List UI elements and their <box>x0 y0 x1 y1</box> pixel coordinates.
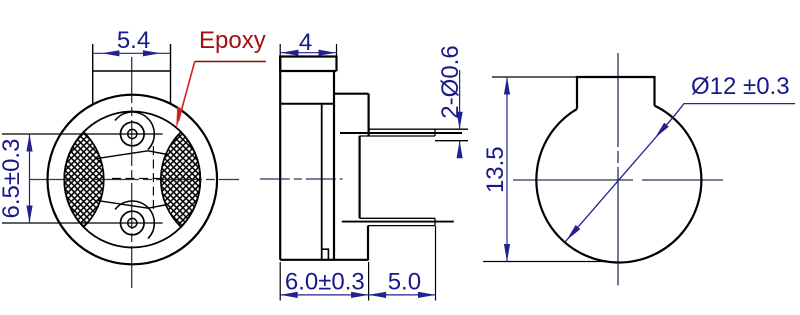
extension line mid bottom <box>368 262 370 301</box>
arrow 4 right <box>319 50 337 56</box>
vertical centerline right view <box>617 53 619 286</box>
left epoxy lens (hatched) <box>64 132 104 227</box>
arrow 6.0 right <box>351 292 369 298</box>
svg-text:Ø12 ±0.3: Ø12 ±0.3 <box>691 73 790 100</box>
base edge between pins <box>359 136 361 219</box>
internal seam line <box>321 104 323 260</box>
svg-text:13.5: 13.5 <box>482 146 509 193</box>
arrow 5.0 left <box>369 292 387 298</box>
arrow 4 left <box>281 50 299 56</box>
top pin upper line <box>369 128 468 130</box>
svg-text:Epoxy: Epoxy <box>199 27 266 54</box>
bottom pin upper line <box>360 217 435 219</box>
top pin outer circle <box>121 122 145 146</box>
outer circle <box>48 95 218 265</box>
step right edge upper <box>368 94 370 136</box>
arrow 13.5 up <box>504 77 510 95</box>
bottom pin shank bold line <box>342 221 454 223</box>
body bottom line <box>280 259 368 261</box>
arrow 5.4 right <box>143 50 161 56</box>
vertical centerline <box>131 57 133 288</box>
svg-text:5.0: 5.0 <box>388 269 421 296</box>
extension line bottom (pin2 level) <box>2 222 163 224</box>
body top line <box>280 70 336 72</box>
body right edge <box>333 71 335 260</box>
bottom pin inner circle <box>128 218 137 227</box>
epoxy arrowhead <box>176 107 182 129</box>
connector line lower (lens to lens) <box>97 200 168 208</box>
leader elbow <box>673 104 795 118</box>
bottom pin end cap <box>434 218 436 225</box>
tab outline <box>577 77 655 109</box>
arrow diag lower-left <box>564 225 580 242</box>
svg-text:4: 4 <box>299 29 312 56</box>
arrow diag inner (pointing down-left) <box>653 123 669 140</box>
arrow Ø0.6 up <box>457 141 463 159</box>
svg-text:6.0±0.3: 6.0±0.3 <box>285 269 365 296</box>
bottom notch <box>322 249 329 260</box>
horizontal centerline middle view <box>260 178 343 180</box>
extension line left of 4 <box>279 44 281 57</box>
top pin lower line <box>360 135 435 137</box>
arrow Ø0.6 down <box>457 112 463 130</box>
bottom pin outer circle <box>121 211 145 235</box>
arrow 5.4 left <box>102 50 120 56</box>
horizontal centerline right view <box>513 179 723 181</box>
svg-text:2-Ø0.6: 2-Ø0.6 <box>437 45 464 118</box>
epoxy leader shelf <box>195 61 266 63</box>
horizontal centerline <box>30 179 239 181</box>
bottom pin lower line <box>368 225 435 227</box>
dim line bottom <box>280 294 435 296</box>
extension line bottom <box>483 261 609 263</box>
dim line 13.5 <box>506 77 508 262</box>
dim line upper part <box>459 70 461 129</box>
arrow 6.0 left <box>280 292 298 298</box>
extension line left bottom <box>279 262 281 301</box>
arrow 6.5 down <box>26 206 32 224</box>
dim line 4 <box>280 52 336 54</box>
arc around top pin <box>115 112 154 150</box>
step top-right horizontal <box>334 93 369 95</box>
inner circle <box>64 112 200 248</box>
arrow 13.5 down <box>504 244 510 262</box>
dim line 5.4 <box>93 52 171 54</box>
epoxy leader slanted line <box>179 62 195 122</box>
arc around bottom pin <box>115 201 154 239</box>
diagonal dim line <box>565 118 673 243</box>
connector line upper (lens to lens) <box>97 151 168 159</box>
arrow 5.0 right <box>418 292 436 298</box>
dim line lower part <box>459 141 461 158</box>
pin dia lower extension line <box>435 140 468 142</box>
svg-text:6.5±0.3: 6.5±0.3 <box>0 139 25 219</box>
top pin end cap <box>434 129 436 136</box>
extension line top (pin1 level) <box>2 133 163 135</box>
base edge below bottom pin <box>367 226 369 260</box>
extension line top <box>492 76 577 78</box>
extension line right bottom (from pin tip) <box>435 226 437 301</box>
body outline <box>279 57 281 260</box>
svg-text:5.4: 5.4 <box>117 27 150 54</box>
top rectangle feature (5.4 wide) left edge <box>92 44 94 105</box>
hidden horizontal dashed line <box>112 177 161 179</box>
top pin shank bold line <box>340 132 462 134</box>
arrow 6.5 up <box>26 134 32 152</box>
main circle (with gap at tab) <box>536 106 701 263</box>
dim line 6.5 <box>29 134 31 223</box>
extension line right of 4 <box>336 44 338 57</box>
hidden vertical dashed line <box>152 146 154 212</box>
top rectangle feature bottom line <box>93 70 171 72</box>
right epoxy lens (hatched) <box>161 132 201 227</box>
cap rectangle <box>280 57 336 72</box>
top pin inner circle <box>128 129 137 138</box>
top rectangle feature right edge <box>170 44 172 104</box>
internal top edge line <box>280 103 334 105</box>
